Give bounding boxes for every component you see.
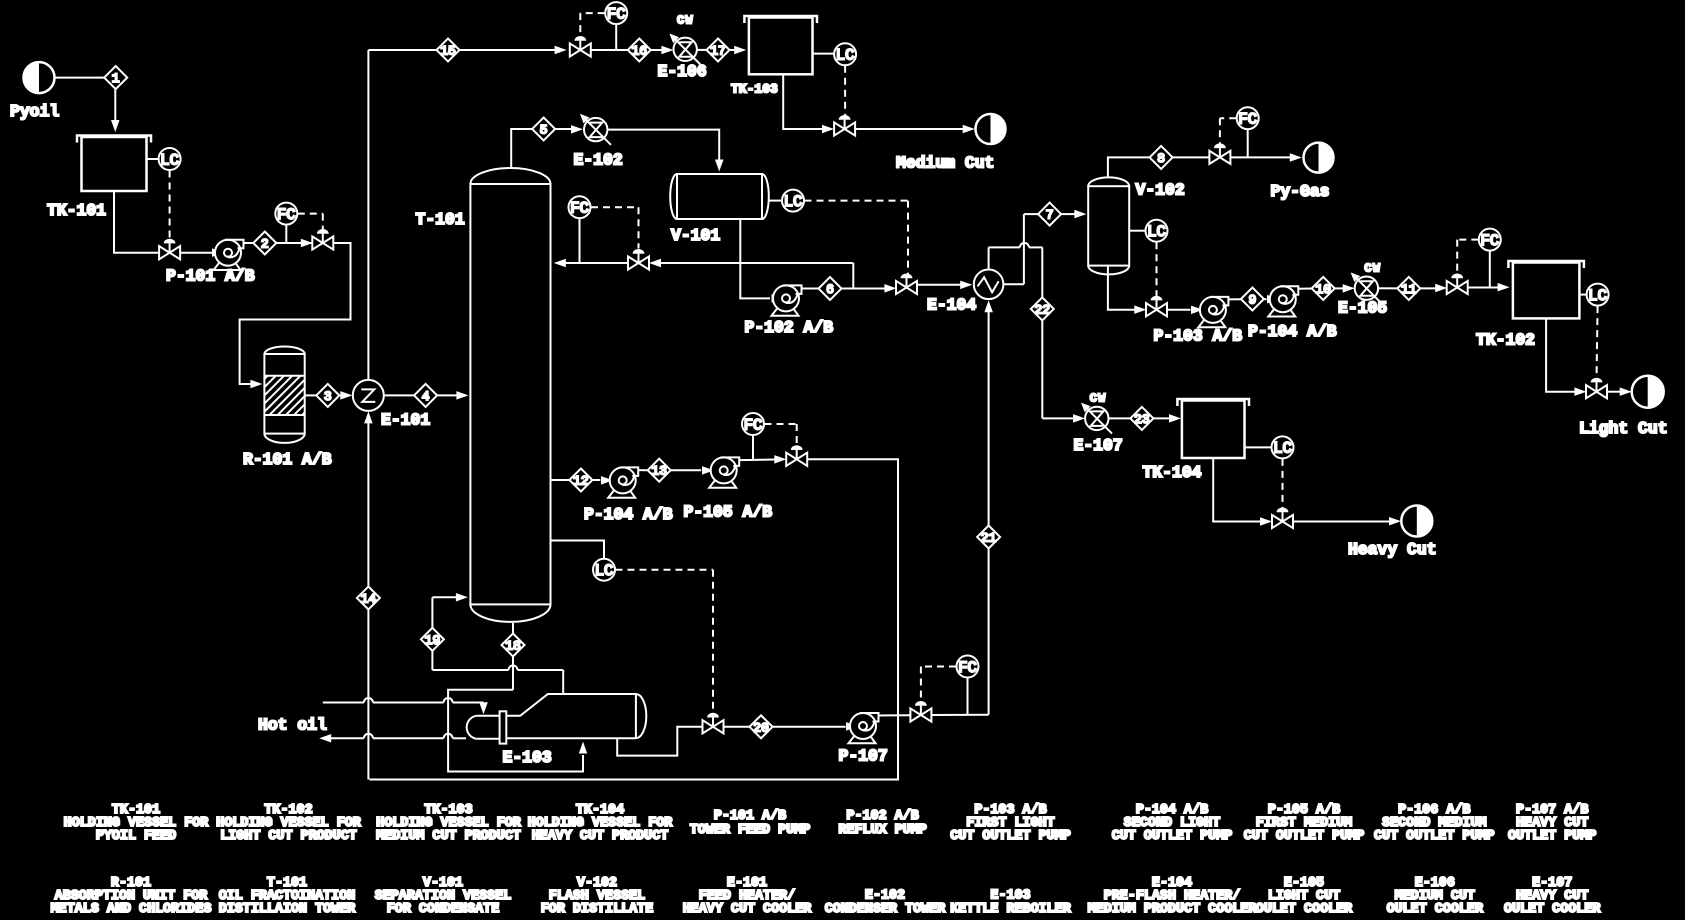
valve feed control bbox=[312, 229, 333, 250]
svg-text:LC: LC bbox=[836, 47, 855, 65]
wire E-103 liquid outlet bbox=[617, 727, 702, 756]
svg-text:CW: CW bbox=[677, 14, 694, 28]
wire P-104 discharge to stream 13 bbox=[638, 469, 648, 471]
stream diamond 19 bbox=[421, 628, 444, 651]
sink Medium Cut bbox=[896, 114, 1006, 173]
legend row 2 bbox=[51, 876, 1602, 917]
wire stream 17 to TK-103 bbox=[730, 46, 747, 54]
svg-text:5: 5 bbox=[540, 123, 548, 138]
svg-text:11: 11 bbox=[1401, 282, 1417, 297]
stream diamond 15 bbox=[437, 39, 460, 62]
valve V-102 bottom bbox=[1146, 296, 1167, 317]
instrument FC feed bbox=[275, 203, 297, 243]
svg-text:P-102 A/B: P-102 A/B bbox=[846, 809, 918, 824]
stream diamond 9 bbox=[1241, 288, 1264, 311]
stream diamond 21 bbox=[977, 526, 1000, 549]
wire P-107 discharge bbox=[879, 714, 911, 716]
svg-text:FC: FC bbox=[1238, 111, 1257, 129]
svg-text:PYOIL FEED: PYOIL FEED bbox=[96, 829, 176, 844]
wire stream 5 to E-102 bbox=[555, 125, 583, 134]
instrument FC py-gas bbox=[1237, 107, 1259, 157]
svg-text:T-101: T-101 bbox=[416, 210, 465, 229]
wire stream 11 to TK-102 valve bbox=[1420, 284, 1447, 292]
svg-text:15: 15 bbox=[440, 44, 456, 59]
svg-text:20: 20 bbox=[753, 720, 769, 735]
svg-text:E-105: E-105 bbox=[1338, 299, 1387, 318]
svg-text:18: 18 bbox=[505, 639, 521, 654]
instrument FC top bbox=[605, 2, 627, 50]
stream diamond 4 bbox=[414, 384, 437, 407]
wire valve to stream 20 bbox=[723, 726, 750, 728]
wire stream 6 to E-104 feed valve bbox=[842, 284, 897, 293]
wire TK-103 outlet bbox=[783, 74, 834, 133]
wire stream 16 to E-106 bbox=[651, 46, 674, 54]
svg-text:V-102: V-102 bbox=[1136, 181, 1185, 200]
svg-text:FC: FC bbox=[958, 659, 977, 677]
svg-text:FC: FC bbox=[570, 200, 589, 218]
stream diamond 13 bbox=[648, 459, 671, 482]
stream diamond 12 bbox=[569, 469, 592, 492]
svg-text:21: 21 bbox=[981, 531, 997, 546]
signal FC reflux to valve bbox=[591, 207, 639, 248]
valve py-gas bbox=[1209, 143, 1230, 164]
vessel TK-102 bbox=[1476, 261, 1584, 350]
wire feed valve to R-101 bbox=[240, 243, 351, 388]
stream diamond 6 bbox=[819, 277, 842, 300]
wire to Medium Cut bbox=[855, 125, 975, 133]
svg-text:CUT OUTLET PUMP: CUT OUTLET PUMP bbox=[1112, 829, 1233, 844]
svg-text:2: 2 bbox=[261, 237, 269, 252]
stream diamond 5 bbox=[532, 118, 555, 141]
pump P-107 bbox=[839, 713, 888, 766]
svg-text:MEDIUM PRODUCT COOLER: MEDIUM PRODUCT COOLER bbox=[1088, 902, 1258, 917]
svg-text:Heavy Cut: Heavy Cut bbox=[1348, 540, 1437, 559]
svg-text:LC: LC bbox=[1273, 440, 1292, 458]
wire P-101 discharge bbox=[244, 242, 255, 244]
instrument FC P-105 bbox=[742, 413, 764, 459]
svg-text:FC: FC bbox=[1480, 232, 1499, 250]
heat exchanger E-107 heavy cut cooler bbox=[1074, 392, 1123, 456]
svg-text:LC: LC bbox=[160, 151, 179, 169]
wire stream 4 to T-101 bbox=[437, 391, 468, 400]
wire stream 13 to P-105 bbox=[671, 466, 714, 475]
wire T-101 overhead to stream 5 bbox=[511, 129, 532, 169]
svg-text:TK-104: TK-104 bbox=[1143, 463, 1202, 482]
stream diamond 1 bbox=[104, 66, 127, 89]
svg-text:LIGHT CUT PRODUCT: LIGHT CUT PRODUCT bbox=[220, 829, 357, 844]
heat exchanger E-105 light cut cooler bbox=[1338, 262, 1387, 318]
svg-text:17: 17 bbox=[710, 44, 726, 59]
svg-text:7: 7 bbox=[1046, 208, 1054, 223]
sink Py-Gas bbox=[1271, 143, 1334, 201]
svg-text:E-106: E-106 bbox=[658, 62, 707, 81]
wire valve to TK-102 bbox=[1467, 283, 1509, 292]
svg-text:12: 12 bbox=[573, 474, 589, 489]
wire E-104 to stream 7 bbox=[1003, 214, 1038, 284]
wire stream 7 to V-102 bbox=[1061, 210, 1086, 219]
wire E-102 to V-101 bbox=[607, 130, 723, 172]
wire hot oil return bbox=[319, 734, 466, 743]
svg-text:LC: LC bbox=[1147, 223, 1166, 241]
pump P-104 A/B left bbox=[584, 467, 673, 524]
svg-text:HEAVY CUT PRODUCT: HEAVY CUT PRODUCT bbox=[532, 829, 669, 844]
svg-text:CUT OUTLET PUMP: CUT OUTLET PUMP bbox=[1244, 829, 1365, 844]
wire V-102 bottom outlet bbox=[1108, 266, 1146, 314]
valve TK-104 outlet bbox=[1272, 508, 1293, 529]
wire E-103 vapor return stream 19 bbox=[432, 651, 563, 694]
wire V-101 bottom to P-102 bbox=[740, 219, 783, 303]
wire Pyoil to stream 1 bbox=[55, 77, 105, 79]
signal FC to P-107 valve bbox=[921, 667, 956, 704]
signal LC TK-102 to valve bbox=[1597, 306, 1598, 380]
svg-text:E-103: E-103 bbox=[503, 748, 552, 767]
vessel TK-101 bbox=[47, 136, 151, 221]
column T-101 bbox=[416, 168, 551, 622]
svg-text:LC: LC bbox=[1588, 287, 1607, 305]
pump P-103 A/B bbox=[1154, 297, 1243, 346]
wire stream 12 to P-104 bbox=[592, 476, 613, 485]
wire P-102 discharge to stream 6 bbox=[802, 288, 819, 290]
svg-text:P-101 A/B: P-101 A/B bbox=[714, 809, 786, 824]
wire E-104 hot inlet riser bbox=[984, 300, 993, 715]
vessel TK-104 bbox=[1143, 399, 1250, 482]
instrument LC TK-101 bbox=[147, 148, 181, 170]
svg-text:LC: LC bbox=[784, 193, 803, 211]
svg-text:LC: LC bbox=[595, 562, 614, 580]
svg-text:DISTILLAION TOWER: DISTILLAION TOWER bbox=[219, 902, 357, 917]
svg-text:Hot oil: Hot oil bbox=[258, 716, 327, 735]
wire E-106 to stream 17 bbox=[697, 49, 707, 51]
svg-text:TOWER FEED PUMP: TOWER FEED PUMP bbox=[690, 823, 811, 838]
signal LC V-101 to valve bbox=[805, 201, 909, 277]
svg-text:FOR DISTILLATE: FOR DISTILLATE bbox=[541, 902, 654, 917]
instrument FC P-107 bbox=[957, 656, 979, 715]
vessel V-102 bbox=[1088, 177, 1184, 274]
stream diamond 14 bbox=[357, 587, 380, 610]
svg-text:4: 4 bbox=[422, 389, 430, 404]
reboiler E-103 bbox=[467, 694, 647, 767]
wire to Heavy Cut bbox=[1293, 517, 1402, 526]
signal LC TK-104 to valve bbox=[1282, 459, 1284, 510]
wire valve to E-104 bbox=[917, 281, 973, 290]
wire hot oil supply bbox=[323, 698, 488, 714]
sink Heavy Cut bbox=[1348, 506, 1437, 560]
svg-text:E-101: E-101 bbox=[381, 411, 430, 430]
svg-text:OULET COOLER: OULET COOLER bbox=[1504, 902, 1601, 917]
wire E-107 to stream 23 bbox=[1109, 417, 1131, 419]
svg-text:TK-101: TK-101 bbox=[47, 201, 106, 220]
condenser E-102 bbox=[574, 114, 623, 170]
wire to Light Cut bbox=[1607, 387, 1632, 396]
wire P-103 discharge to stream 9 bbox=[1228, 298, 1241, 300]
svg-text:P-105 A/B: P-105 A/B bbox=[684, 503, 773, 522]
wire V-102 top to stream 8 bbox=[1108, 157, 1150, 177]
svg-text:E-102: E-102 bbox=[574, 151, 623, 170]
signal FC to py-gas valve bbox=[1220, 118, 1236, 144]
svg-text:6: 6 bbox=[826, 282, 834, 297]
svg-text:METALS AND CHLORIDES: METALS AND CHLORIDES bbox=[51, 902, 212, 917]
svg-text:16: 16 bbox=[631, 44, 647, 59]
svg-text:3: 3 bbox=[324, 389, 332, 404]
wire stream 3 to E-101 bbox=[339, 391, 352, 400]
wire top line to stream 15 bbox=[368, 49, 436, 51]
svg-text:14: 14 bbox=[361, 592, 377, 607]
wire to Py-Gas sink bbox=[1230, 153, 1301, 162]
stream diamond 11 bbox=[1397, 277, 1420, 300]
wire stream 20 to P-107 bbox=[773, 722, 859, 731]
svg-text:REFLUX PUMP: REFLUX PUMP bbox=[838, 823, 926, 838]
svg-text:CW: CW bbox=[1090, 392, 1107, 406]
valve E-103 outlet bbox=[703, 713, 724, 734]
stream diamond 23 bbox=[1130, 407, 1153, 430]
instrument FC TK-102 feed bbox=[1479, 229, 1501, 288]
legend row 1 bbox=[64, 803, 1597, 844]
svg-text:OULET COOLER: OULET COOLER bbox=[1256, 902, 1353, 917]
wire E-105 to stream 11 bbox=[1378, 287, 1397, 289]
svg-text:E-104: E-104 bbox=[927, 296, 976, 315]
valve TK-103 outlet bbox=[834, 115, 855, 136]
stream diamond 7 bbox=[1038, 203, 1061, 226]
wire TK-102 outlet bbox=[1546, 318, 1586, 396]
svg-text:KETTLE REBOILER: KETTLE REBOILER bbox=[950, 902, 1071, 917]
svg-text:OULET COOLER: OULET COOLER bbox=[1387, 902, 1484, 917]
svg-text:CONDENSER TOWER: CONDENSER TOWER bbox=[825, 902, 946, 917]
svg-text:Pyoil: Pyoil bbox=[10, 102, 59, 121]
svg-text:P-103 A/B: P-103 A/B bbox=[1154, 327, 1243, 346]
wire valve to stream 16 bbox=[590, 49, 628, 51]
instrument LC TK-102 bbox=[1579, 284, 1608, 306]
vessel TK-103 bbox=[731, 16, 817, 97]
svg-text:P-104 A/B: P-104 A/B bbox=[1248, 322, 1337, 341]
vessel V-101 bbox=[670, 174, 769, 245]
pump P-105 A/B bbox=[684, 457, 773, 521]
svg-text:10: 10 bbox=[1315, 282, 1331, 297]
stream diamond 2 bbox=[253, 232, 276, 255]
signal LC T-101 to reboiler valve bbox=[616, 570, 714, 715]
stream diamond 10 bbox=[1312, 277, 1335, 300]
pump P-104 A/B right bbox=[1248, 286, 1337, 341]
wire stream 9 to P-104 bbox=[1264, 295, 1279, 304]
wire stream 15 to top valve bbox=[460, 46, 567, 54]
svg-text:V-101: V-101 bbox=[671, 226, 720, 245]
svg-text:P-107: P-107 bbox=[839, 747, 888, 766]
valve P-107 discharge bbox=[910, 701, 931, 722]
stream diamond 3 bbox=[316, 384, 339, 407]
svg-text:MEDIUM CUT PRODUCT: MEDIUM CUT PRODUCT bbox=[376, 829, 521, 844]
instrument LC T-101 bbox=[551, 541, 616, 581]
heat exchanger E-101 bbox=[353, 380, 431, 430]
valve TK-102 feed bbox=[1447, 274, 1468, 295]
wire stream 18 to E-103 bbox=[448, 657, 587, 772]
wire TK-101 outlet bbox=[114, 191, 160, 253]
svg-text:CUT OUTLET PUMP: CUT OUTLET PUMP bbox=[1374, 829, 1495, 844]
stream diamond 8 bbox=[1150, 146, 1173, 169]
wire heavy/medium riser vertical bbox=[364, 50, 373, 780]
svg-text:TK-102: TK-102 bbox=[1476, 331, 1535, 350]
svg-text:CW: CW bbox=[1364, 262, 1381, 276]
svg-text:Light Cut: Light Cut bbox=[1579, 419, 1668, 438]
wire valve to P-101 bbox=[180, 248, 224, 257]
pump P-101 A/B bbox=[166, 240, 255, 286]
svg-text:HEAVY CUT COOLER: HEAVY CUT COOLER bbox=[683, 902, 813, 917]
svg-text:19: 19 bbox=[425, 633, 441, 648]
signal FC to TK-102 feed valve bbox=[1457, 240, 1478, 276]
wire T-101 bottoms to stream 18 bbox=[512, 623, 514, 634]
signal LC to valve TK-101 bbox=[169, 171, 171, 242]
wire stream 10 to E-105 bbox=[1335, 284, 1355, 293]
signal LC V-102 to valve bbox=[1156, 242, 1158, 298]
svg-text:P-104 A/B: P-104 A/B bbox=[584, 505, 673, 524]
wire R-101 to stream 3 bbox=[305, 394, 317, 396]
heat exchanger E-106 medium cut cooler bbox=[658, 14, 707, 82]
valve top medium cut bbox=[570, 36, 591, 57]
wire reflux line bbox=[554, 259, 629, 267]
svg-text:TK-103: TK-103 bbox=[731, 82, 778, 97]
wire valve to P-103 bbox=[1167, 306, 1204, 315]
svg-text:FC: FC bbox=[277, 206, 296, 224]
valve TK-101 outlet bbox=[159, 239, 180, 260]
wire stream 23 to TK-104 bbox=[1153, 414, 1181, 423]
valve reflux bbox=[628, 249, 649, 270]
stream diamond 16 bbox=[628, 39, 651, 62]
wire E-101 to stream 4 bbox=[384, 394, 414, 396]
pump P-102 A/B bbox=[745, 285, 834, 337]
wire T-101 side draw to stream 12 bbox=[551, 479, 570, 481]
svg-text:13: 13 bbox=[651, 464, 667, 479]
signal FC to P-105 valve bbox=[765, 424, 797, 448]
svg-text:E-107: E-107 bbox=[1074, 436, 1123, 455]
wire stream 8 to py-gas valve bbox=[1173, 156, 1210, 158]
wire TK-104 outlet bbox=[1213, 458, 1272, 526]
svg-text:P-101 A/B: P-101 A/B bbox=[166, 267, 255, 286]
svg-text:Py-Gas: Py-Gas bbox=[1271, 182, 1330, 201]
wire stream 19 to T-101 bbox=[432, 593, 468, 628]
instrument LC V-101 bbox=[769, 190, 805, 212]
heat exchanger E-104 bbox=[927, 270, 1003, 315]
svg-text:8: 8 bbox=[1157, 151, 1165, 166]
signal FC to feed valve bbox=[298, 214, 323, 233]
svg-text:FC: FC bbox=[744, 416, 763, 434]
svg-text:22: 22 bbox=[1034, 302, 1050, 317]
instrument FC reflux bbox=[569, 196, 591, 263]
svg-text:P-102 A/B: P-102 A/B bbox=[745, 318, 834, 337]
svg-text:Medium Cut: Medium Cut bbox=[896, 154, 994, 173]
svg-text:9: 9 bbox=[1248, 293, 1256, 308]
wire P-104 discharge to stream 10 bbox=[1298, 288, 1311, 290]
svg-text:23: 23 bbox=[1134, 412, 1150, 427]
valve P-105 discharge bbox=[786, 445, 807, 466]
svg-text:OUTLET PUMP: OUTLET PUMP bbox=[1508, 829, 1596, 844]
source Pyoil bbox=[10, 62, 59, 121]
valve E-104 feed bbox=[896, 274, 917, 295]
instrument LC TK-103 bbox=[813, 43, 857, 65]
wire stream 1 to TK-101 bbox=[111, 89, 120, 132]
wire valve down to bottom header bbox=[369, 459, 898, 779]
sink Light Cut bbox=[1579, 376, 1668, 438]
svg-text:FOR CONDENSATE: FOR CONDENSATE bbox=[387, 902, 500, 917]
svg-text:1: 1 bbox=[112, 71, 120, 86]
svg-text:CUT OUTLET PUMP: CUT OUTLET PUMP bbox=[950, 829, 1071, 844]
stream diamond 18 bbox=[502, 634, 525, 657]
wire valve to E-104 riser bbox=[931, 714, 989, 716]
stream diamond 17 bbox=[707, 39, 730, 62]
wire E-104 hot outlet to E-107 bbox=[989, 243, 1086, 423]
label hot oil bbox=[258, 716, 327, 735]
stream diamond 20 bbox=[750, 715, 773, 738]
wire stream 2 to feed valve bbox=[276, 239, 313, 247]
instrument LC TK-104 bbox=[1245, 436, 1294, 458]
wire P-105 discharge bbox=[739, 455, 786, 464]
wire reflux right segment bbox=[649, 259, 853, 288]
svg-text:FC: FC bbox=[607, 5, 626, 23]
signal LC TK-103 to valve bbox=[844, 66, 846, 118]
stream diamond 22 bbox=[1031, 297, 1054, 320]
svg-text:R-101 A/B: R-101 A/B bbox=[243, 450, 332, 469]
instrument LC V-102 bbox=[1129, 220, 1167, 242]
vessel R-101 A/B absorption unit bbox=[224, 346, 361, 469]
valve TK-102 outlet bbox=[1586, 378, 1607, 399]
signal FC to top valve bbox=[580, 13, 604, 38]
